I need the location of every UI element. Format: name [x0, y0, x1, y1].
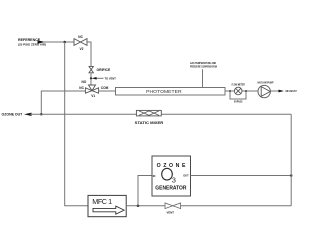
junction zero-air tee: [63, 41, 66, 44]
MFC 1: [88, 195, 126, 216]
junction REF tap: [90, 77, 92, 79]
leader TO VENT: [92, 77, 116, 81]
static mixer MX1: [135, 110, 164, 125]
svg-text:VENT: VENT: [167, 211, 175, 215]
wire zero air down to MFC: [65, 42, 88, 206]
vacuum pump P1: [257, 81, 273, 98]
svg-text:NC: NC: [78, 35, 83, 39]
wire ozone out line left: [30, 113, 136, 115]
wire photometer to pump: [225, 90, 258, 92]
svg-text:NO: NO: [82, 80, 87, 84]
junction bypass left: [229, 90, 231, 92]
svg-text:TO VENT: TO VENT: [105, 77, 116, 81]
svg-text:GENERATOR: GENERATOR: [155, 186, 186, 192]
wire MFC out: [126, 205, 165, 207]
svg-text:IN: IN: [153, 174, 156, 178]
svg-text:OUT: OUT: [183, 174, 189, 178]
ozone generator G1: [152, 156, 191, 196]
junction bypass right: [245, 90, 247, 92]
wire tee up to generator IN: [138, 176, 152, 206]
flow meter FM1: [232, 83, 245, 104]
node AIR EXHAUST outlet: [270, 89, 297, 93]
svg-text:V1: V1: [91, 94, 95, 98]
svg-text:STATIC MIXER: STATIC MIXER: [135, 121, 164, 125]
photometer U1: [116, 88, 226, 96]
wire right riser: [290, 114, 292, 206]
svg-text:VACUUM PUMP: VACUUM PUMP: [257, 81, 273, 85]
svg-text:3: 3: [172, 176, 176, 185]
svg-text:FLOW METER: FLOW METER: [232, 83, 245, 87]
svg-text:PHOTOMETER: PHOTOMETER: [146, 89, 182, 94]
valve V1 (3-way): [79, 80, 108, 98]
wire ozone out line right: [161, 113, 291, 115]
svg-text:V2: V2: [80, 47, 84, 51]
wire generator OUT: [191, 175, 292, 177]
wire reference inlet to valve V2: [44, 41, 74, 43]
valve vent: [165, 203, 181, 215]
svg-text:COM: COM: [101, 86, 109, 90]
svg-text:OZONE OUT: OZONE OUT: [2, 113, 24, 117]
node REFERENCE (25 PSIG ZERO AIR) inlet: [18, 38, 46, 47]
wire V2 to orifice: [87, 42, 91, 66]
orifice: [89, 66, 111, 72]
valve V2: [74, 35, 87, 51]
wire orifice to valve V1: [90, 73, 92, 86]
annotation gas temperature and pressure compensation: [190, 61, 217, 87]
svg-text:PRESSURE COMPENSATION: PRESSURE COMPENSATION: [190, 64, 217, 68]
wire V1 NC sample line: [41, 91, 85, 114]
junction right riser tee: [290, 174, 293, 177]
svg-text:BYPASS: BYPASS: [234, 99, 243, 103]
junction sample tap on ozone out line: [40, 113, 43, 116]
node OZONE OUT outlet: [2, 113, 32, 117]
svg-text:MFC 1: MFC 1: [92, 197, 112, 206]
wire V1 COM to photometer: [99, 90, 116, 92]
wire vent line: [181, 205, 292, 207]
junction generator feed tee: [137, 205, 140, 208]
svg-text:AIR EXHAUST: AIR EXHAUST: [285, 89, 297, 93]
bypass loop: [230, 91, 246, 99]
svg-text:NC: NC: [79, 86, 84, 90]
svg-text:REFERENCE: REFERENCE: [18, 38, 41, 42]
svg-text:ORIFICE: ORIFICE: [97, 68, 111, 72]
svg-text:(25 PSIG ZERO AIR): (25 PSIG ZERO AIR): [18, 43, 46, 47]
